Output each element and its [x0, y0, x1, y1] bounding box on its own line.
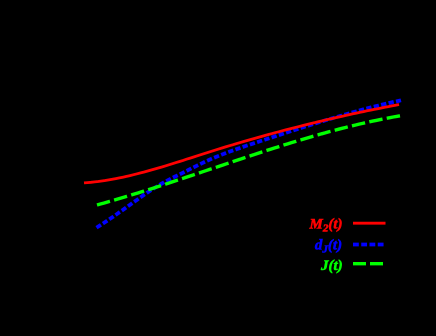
- legend sample line dJ(t): [353, 243, 386, 247]
- curve dJ(t) blue dotted: [97, 100, 402, 227]
- curve M2(t) red solid: [84, 105, 399, 183]
- legend sample line J(t): [353, 262, 386, 265]
- curve J(t) green dashed: [97, 116, 400, 205]
- legend sample line M2(t): [353, 222, 386, 225]
- svg-text:J(t): J(t): [320, 258, 343, 274]
- svg-text:dJ(t): dJ(t): [315, 238, 342, 256]
